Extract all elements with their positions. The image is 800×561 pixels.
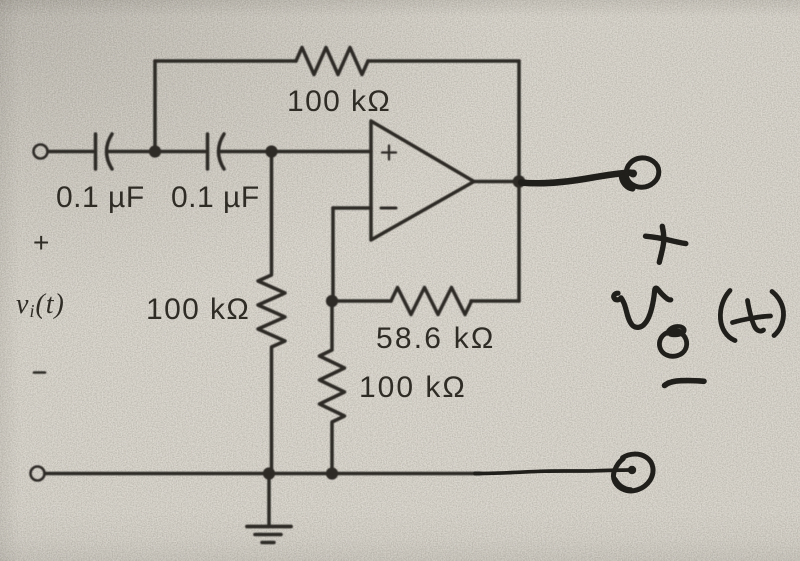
handwritten subscript o <box>659 331 686 356</box>
resistor R4 100k (lower vertical) <box>320 301 345 474</box>
node A (junction C1-C2, feedback tap) <box>149 145 161 157</box>
wire top right <box>368 59 519 63</box>
printed labels <box>16 85 496 404</box>
handwritten ink <box>475 158 784 491</box>
node C (inverting feedback node) <box>326 295 338 307</box>
capacitor C1 <box>94 134 98 169</box>
input terminal bottom <box>31 467 45 481</box>
node output <box>513 175 526 188</box>
terminal loop bottom (hand-drawn) <box>613 454 653 491</box>
resistor R3 58.6k <box>391 288 472 315</box>
svg-text:+: + <box>33 227 50 258</box>
svg-text:0.1 µF: 0.1 µF <box>56 181 145 214</box>
minus sign inside op-amp <box>381 207 396 210</box>
wire right vertical (output to feedback) <box>517 61 521 301</box>
ground <box>267 474 271 527</box>
handwritten ( <box>720 291 735 341</box>
resistor R2 100k (top feedback) <box>296 48 368 75</box>
wire node A up <box>153 61 157 152</box>
wire op-amp output <box>474 180 519 184</box>
minus label vi <box>34 371 45 374</box>
input terminal top <box>34 145 48 159</box>
op-amp U1 <box>371 121 474 240</box>
bottom rail <box>45 472 480 476</box>
wire - input <box>333 206 371 210</box>
wire R3 to output vertical <box>471 299 519 303</box>
handwritten minus <box>665 381 705 386</box>
handwritten t <box>748 301 764 332</box>
wire C2 to op-amp + input <box>221 150 371 154</box>
svg-text:100 kΩ: 100 kΩ <box>359 371 467 404</box>
svg-text:0.1 µF: 0.1 µF <box>171 181 260 214</box>
node D (R1 to ground) <box>263 467 275 479</box>
wire node C to R3 <box>332 299 391 303</box>
wire C1 to C2 <box>109 150 205 154</box>
svg-text:58.6 kΩ: 58.6 kΩ <box>376 322 496 355</box>
terminal loop top (hand-drawn) <box>629 170 637 178</box>
wire output lead (hand-drawn) <box>521 173 631 184</box>
svg-text:vi(t): vi(t) <box>16 289 65 321</box>
node E (R4 to rail) <box>326 467 338 479</box>
handwritten ) <box>772 292 784 336</box>
plus sign inside op-amp <box>382 146 396 160</box>
svg-text:100 kΩ: 100 kΩ <box>146 293 250 326</box>
wire input to C1 <box>48 150 93 154</box>
node B (junction to R1) <box>265 145 277 157</box>
wire bottom lead (hand-drawn) <box>475 470 631 474</box>
handwritten plus <box>646 236 686 243</box>
capacitor C2 <box>206 134 210 169</box>
svg-text:100 kΩ: 100 kΩ <box>287 85 391 118</box>
resistor R1 100k (left vertical) <box>258 152 285 474</box>
wire top left <box>155 59 296 63</box>
handwritten v (script) <box>614 288 671 327</box>
